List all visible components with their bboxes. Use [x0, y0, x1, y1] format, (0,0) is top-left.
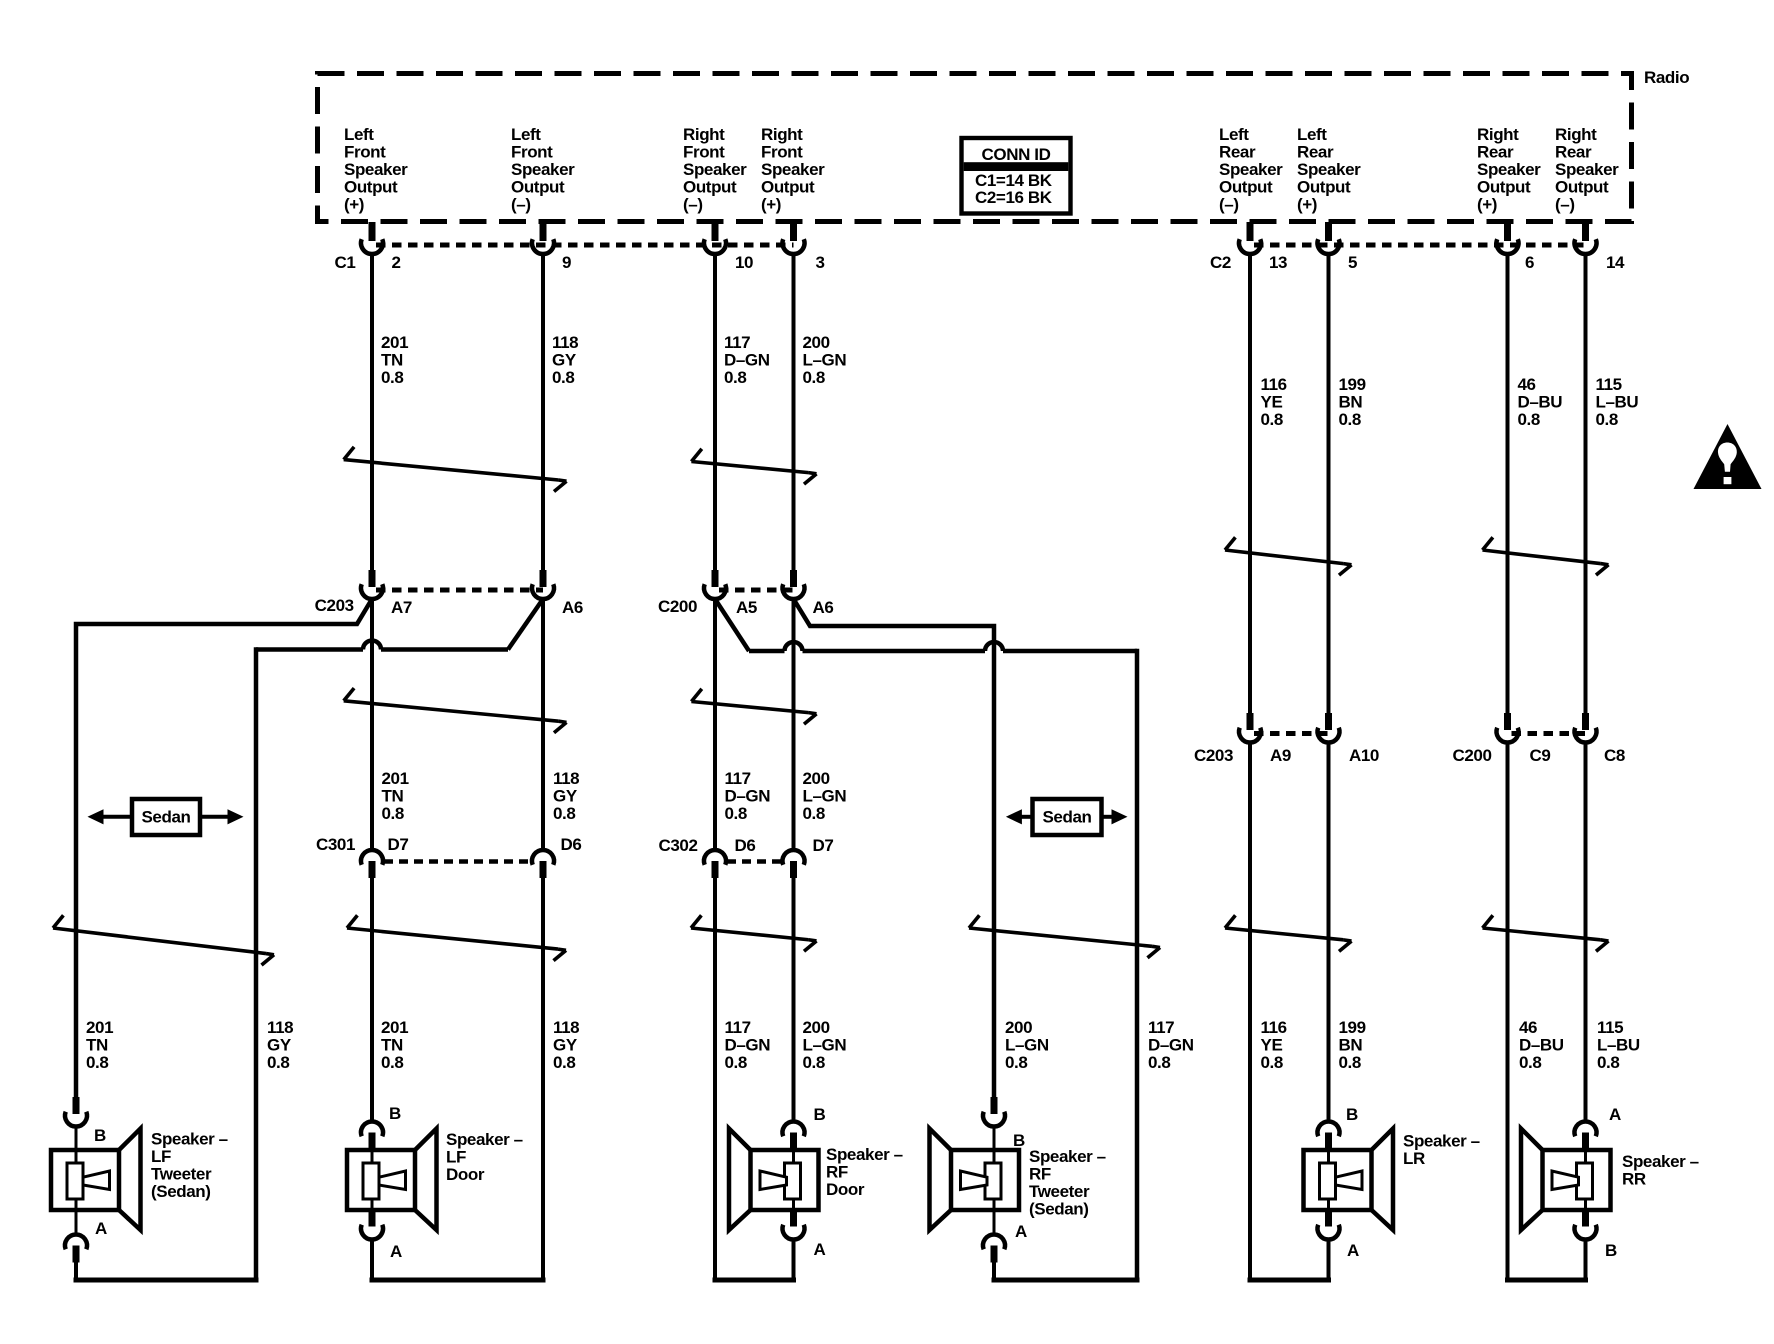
svg-text:C9: C9 [1530, 746, 1551, 765]
svg-text:Output: Output [1477, 178, 1531, 197]
svg-text:Speaker: Speaker [1297, 160, 1361, 179]
svg-text:Speaker –: Speaker – [1622, 1152, 1699, 1171]
svg-text:Left: Left [1297, 125, 1327, 144]
svg-text:0.8: 0.8 [1518, 410, 1540, 429]
svg-text:A: A [1015, 1222, 1027, 1241]
svg-text:TN: TN [382, 787, 404, 806]
svg-text:B: B [814, 1105, 826, 1124]
svg-text:RR: RR [1622, 1170, 1646, 1189]
svg-text:B: B [1346, 1105, 1358, 1124]
svg-text:Output: Output [683, 178, 737, 197]
svg-text:TN: TN [381, 351, 403, 370]
svg-text:Right: Right [761, 125, 803, 144]
svg-text:Speaker: Speaker [1219, 160, 1283, 179]
svg-text:Left: Left [1219, 125, 1249, 144]
svg-text:0.8: 0.8 [1148, 1053, 1170, 1072]
svg-text:2: 2 [392, 253, 401, 272]
svg-text:D–GN: D–GN [725, 787, 771, 806]
svg-text:L–GN: L–GN [803, 787, 847, 806]
svg-text:B: B [389, 1104, 401, 1123]
svg-text:Speaker –: Speaker – [151, 1130, 228, 1149]
svg-text:Output: Output [1219, 178, 1273, 197]
svg-text:D–GN: D–GN [724, 351, 770, 370]
svg-text:0.8: 0.8 [382, 804, 404, 823]
svg-text:A6: A6 [813, 598, 834, 617]
svg-text:6: 6 [1525, 253, 1534, 272]
svg-text:0.8: 0.8 [1596, 410, 1618, 429]
svg-text:GY: GY [267, 1036, 292, 1055]
svg-text:YE: YE [1261, 1036, 1283, 1055]
svg-text:5: 5 [1348, 253, 1357, 272]
svg-text:0.8: 0.8 [725, 1053, 747, 1072]
svg-text:117: 117 [1148, 1018, 1174, 1037]
svg-text:L–BU: L–BU [1596, 393, 1639, 412]
svg-text:10: 10 [735, 253, 753, 272]
svg-text:C2=16 BK: C2=16 BK [975, 188, 1053, 207]
svg-text:0.8: 0.8 [553, 1053, 575, 1072]
svg-text:Right: Right [1555, 125, 1597, 144]
svg-text:117: 117 [724, 333, 750, 352]
svg-text:(–): (–) [683, 195, 703, 214]
svg-text:118: 118 [552, 333, 578, 352]
svg-text:0.8: 0.8 [86, 1053, 108, 1072]
svg-text:Front: Front [683, 143, 725, 162]
svg-text:BN: BN [1339, 393, 1363, 412]
svg-text:D–GN: D–GN [1148, 1036, 1194, 1055]
svg-text:D–GN: D–GN [725, 1036, 771, 1055]
svg-text:A: A [814, 1240, 826, 1259]
svg-text:L–GN: L–GN [803, 1036, 847, 1055]
svg-text:L–GN: L–GN [803, 351, 847, 370]
svg-text:0.8: 0.8 [553, 804, 575, 823]
svg-text:14: 14 [1606, 253, 1625, 272]
svg-text:0.8: 0.8 [552, 368, 574, 387]
svg-text:116: 116 [1261, 375, 1287, 394]
svg-text:A: A [95, 1219, 107, 1238]
svg-text:0.8: 0.8 [1005, 1053, 1027, 1072]
svg-text:C200: C200 [658, 597, 697, 616]
svg-text:9: 9 [562, 253, 571, 272]
svg-text:Speaker: Speaker [511, 160, 575, 179]
svg-text:A9: A9 [1270, 746, 1291, 765]
svg-text:201: 201 [86, 1018, 113, 1037]
svg-text:B: B [94, 1126, 106, 1145]
svg-text:0.8: 0.8 [803, 804, 825, 823]
svg-text:C203: C203 [1194, 746, 1233, 765]
svg-text:201: 201 [382, 769, 409, 788]
svg-text:A: A [1609, 1105, 1621, 1124]
svg-text:LF: LF [446, 1148, 466, 1167]
svg-text:Speaker: Speaker [683, 160, 747, 179]
svg-text:(–): (–) [1219, 195, 1239, 214]
svg-text:0.8: 0.8 [381, 368, 403, 387]
svg-text:Sedan: Sedan [141, 808, 190, 827]
svg-text:(+): (+) [1477, 195, 1497, 214]
svg-text:Tweeter: Tweeter [1029, 1182, 1090, 1201]
svg-text:RF: RF [826, 1163, 848, 1182]
svg-text:D–BU: D–BU [1519, 1036, 1564, 1055]
svg-text:Output: Output [1555, 178, 1609, 197]
svg-text:0.8: 0.8 [803, 1053, 825, 1072]
svg-text:3: 3 [816, 253, 825, 272]
svg-text:C301: C301 [316, 835, 355, 854]
svg-text:Speaker: Speaker [761, 160, 825, 179]
svg-text:A: A [390, 1242, 402, 1261]
svg-text:LR: LR [1403, 1149, 1425, 1168]
svg-text:Front: Front [511, 143, 553, 162]
svg-text:Speaker –: Speaker – [826, 1145, 903, 1164]
svg-text:200: 200 [803, 769, 830, 788]
svg-text:Output: Output [511, 178, 565, 197]
svg-text:118: 118 [553, 769, 579, 788]
svg-text:200: 200 [803, 333, 830, 352]
svg-text:200: 200 [803, 1018, 830, 1037]
svg-text:L–GN: L–GN [1005, 1036, 1049, 1055]
svg-text:118: 118 [267, 1018, 293, 1037]
svg-text:115: 115 [1597, 1018, 1623, 1037]
svg-text:200: 200 [1005, 1018, 1032, 1037]
svg-text:B: B [1605, 1241, 1617, 1260]
svg-text:Right: Right [683, 125, 725, 144]
svg-text:Door: Door [826, 1180, 865, 1199]
svg-text:C302: C302 [658, 836, 697, 855]
svg-text:201: 201 [381, 333, 408, 352]
svg-text:Rear: Rear [1555, 143, 1592, 162]
svg-text:C200: C200 [1452, 746, 1491, 765]
svg-text:199: 199 [1339, 375, 1366, 394]
svg-text:46: 46 [1519, 1018, 1537, 1037]
svg-text:D7: D7 [813, 836, 834, 855]
svg-text:0.8: 0.8 [1339, 1053, 1361, 1072]
svg-text:D6: D6 [561, 835, 582, 854]
svg-text:Rear: Rear [1477, 143, 1514, 162]
svg-text:(+): (+) [344, 195, 364, 214]
svg-text:Sedan: Sedan [1042, 808, 1091, 827]
svg-text:117: 117 [725, 769, 751, 788]
svg-text:Right: Right [1477, 125, 1519, 144]
svg-text:(–): (–) [511, 195, 531, 214]
svg-text:(–): (–) [1555, 195, 1575, 214]
svg-text:Output: Output [344, 178, 398, 197]
svg-text:0.8: 0.8 [724, 368, 746, 387]
svg-text:Speaker: Speaker [1477, 160, 1541, 179]
svg-text:(Sedan): (Sedan) [151, 1182, 211, 1201]
svg-text:A7: A7 [391, 598, 412, 617]
svg-text:B: B [1013, 1131, 1025, 1150]
svg-text:C8: C8 [1604, 746, 1625, 765]
svg-text:0.8: 0.8 [1261, 1053, 1283, 1072]
svg-text:Front: Front [344, 143, 386, 162]
svg-text:(Sedan): (Sedan) [1029, 1200, 1089, 1219]
svg-text:TN: TN [86, 1036, 108, 1055]
svg-text:201: 201 [381, 1018, 408, 1037]
svg-text:46: 46 [1518, 375, 1536, 394]
svg-text:C1: C1 [335, 253, 356, 272]
svg-text:D6: D6 [735, 836, 756, 855]
svg-text:0.8: 0.8 [1261, 410, 1283, 429]
svg-text:BN: BN [1339, 1036, 1363, 1055]
svg-text:C203: C203 [315, 596, 354, 615]
svg-text:Rear: Rear [1219, 143, 1256, 162]
svg-text:Tweeter: Tweeter [151, 1165, 212, 1184]
svg-text:116: 116 [1261, 1018, 1287, 1037]
svg-text:13: 13 [1269, 253, 1287, 272]
svg-text:GY: GY [553, 1036, 578, 1055]
svg-text:0.8: 0.8 [267, 1053, 289, 1072]
svg-text:CONN ID: CONN ID [982, 145, 1051, 164]
svg-text:YE: YE [1261, 393, 1283, 412]
svg-text:A6: A6 [562, 598, 583, 617]
svg-text:Speaker: Speaker [344, 160, 408, 179]
svg-text:GY: GY [553, 787, 578, 806]
svg-text:(+): (+) [1297, 195, 1317, 214]
svg-text:199: 199 [1339, 1018, 1366, 1037]
svg-text:Speaker –: Speaker – [1403, 1132, 1480, 1151]
svg-text:C2: C2 [1210, 253, 1231, 272]
svg-text:Speaker –: Speaker – [446, 1130, 523, 1149]
svg-text:TN: TN [381, 1036, 403, 1055]
svg-text:Rear: Rear [1297, 143, 1334, 162]
svg-text:Radio: Radio [1644, 68, 1689, 87]
svg-text:0.8: 0.8 [381, 1053, 403, 1072]
svg-text:D–BU: D–BU [1518, 393, 1563, 412]
svg-text:Left: Left [511, 125, 541, 144]
svg-text:Speaker: Speaker [1555, 160, 1619, 179]
svg-text:A5: A5 [736, 598, 757, 617]
svg-text:Speaker –: Speaker – [1029, 1147, 1106, 1166]
svg-text:Left: Left [344, 125, 374, 144]
svg-text:117: 117 [725, 1018, 751, 1037]
svg-text:Output: Output [761, 178, 815, 197]
svg-text:A: A [1347, 1241, 1359, 1260]
svg-text:LF: LF [151, 1147, 171, 1166]
svg-text:A10: A10 [1349, 746, 1379, 765]
svg-text:Front: Front [761, 143, 803, 162]
svg-text:0.8: 0.8 [1519, 1053, 1541, 1072]
svg-text:118: 118 [553, 1018, 579, 1037]
svg-text:0.8: 0.8 [1597, 1053, 1619, 1072]
svg-text:D7: D7 [388, 835, 409, 854]
svg-text:115: 115 [1596, 375, 1622, 394]
svg-text:L–BU: L–BU [1597, 1036, 1640, 1055]
svg-text:0.8: 0.8 [803, 368, 825, 387]
svg-text:GY: GY [552, 351, 577, 370]
svg-text:Door: Door [446, 1165, 485, 1184]
svg-text:0.8: 0.8 [725, 804, 747, 823]
svg-text:(+): (+) [761, 195, 781, 214]
svg-text:RF: RF [1029, 1165, 1051, 1184]
svg-text:Output: Output [1297, 178, 1351, 197]
svg-text:0.8: 0.8 [1339, 410, 1361, 429]
